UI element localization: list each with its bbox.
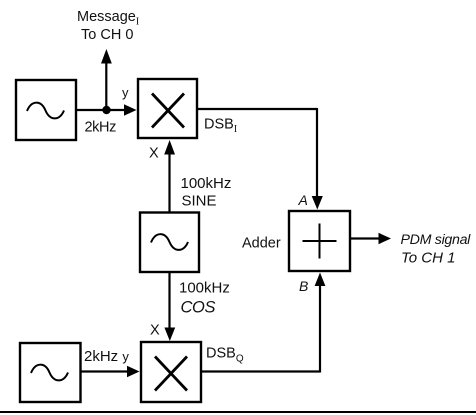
bottom rule	[0, 411, 476, 413]
node y (junction dot)	[102, 106, 110, 114]
svg-text:To CH 1: To CH 1	[401, 250, 455, 267]
oscillator OSC3 (2kHz sine source, bottom-left)	[20, 343, 81, 402]
oscillator OSC2 (100kHz quadrature source, center)	[140, 213, 199, 273]
label 100kHz SINE	[181, 175, 232, 210]
svg-text:COS: COS	[181, 299, 216, 317]
wire OSC3 output to M2 input	[81, 366, 140, 377]
wire M1 output to adder input A	[198, 108, 323, 210]
svg-text:2kHz: 2kHz	[85, 120, 117, 136]
svg-text:B: B	[299, 278, 308, 294]
svg-text:A: A	[298, 192, 308, 208]
wire adder output to PDM arrow	[351, 233, 391, 244]
label Message_I To CH 0	[77, 9, 139, 43]
label PDM signal To CH 1	[401, 232, 472, 267]
svg-text:PDM signal: PDM signal	[401, 232, 472, 248]
wire oscillator OSC2 sine output up to M1 X input	[164, 140, 175, 212]
svg-text:2kHz y: 2kHz y	[84, 348, 129, 365]
svg-text:100kHz: 100kHz	[181, 175, 232, 192]
wire OSC2 cos output down to M2 X input	[164, 272, 175, 341]
svg-text:MessageI: MessageI	[77, 9, 139, 28]
oscillator OSC1 (2kHz sine source, top-left)	[16, 80, 76, 140]
wire M2 output to adder input B	[202, 273, 325, 373]
svg-text:Adder: Adder	[242, 236, 281, 252]
svg-text:DSBI: DSBI	[204, 117, 237, 136]
svg-text:To CH 0: To CH 0	[81, 27, 133, 43]
svg-text:y: y	[122, 85, 129, 100]
label 100kHz COS	[179, 280, 230, 317]
wire OSC1 output to junction and multiplier M1 input	[77, 104, 137, 115]
svg-text:SINE: SINE	[182, 193, 217, 210]
svg-text:100kHz: 100kHz	[179, 280, 230, 297]
multiplier M1 (DSB_I mixer)	[138, 79, 197, 138]
svg-text:X: X	[149, 146, 159, 162]
multiplier M2 (DSB_Q mixer)	[141, 342, 201, 402]
svg-text:DSBQ: DSBQ	[206, 346, 244, 365]
adder U1 (summer)	[289, 211, 350, 271]
svg-text:X: X	[150, 323, 160, 339]
wire junction up to Message arrow	[101, 49, 112, 110]
